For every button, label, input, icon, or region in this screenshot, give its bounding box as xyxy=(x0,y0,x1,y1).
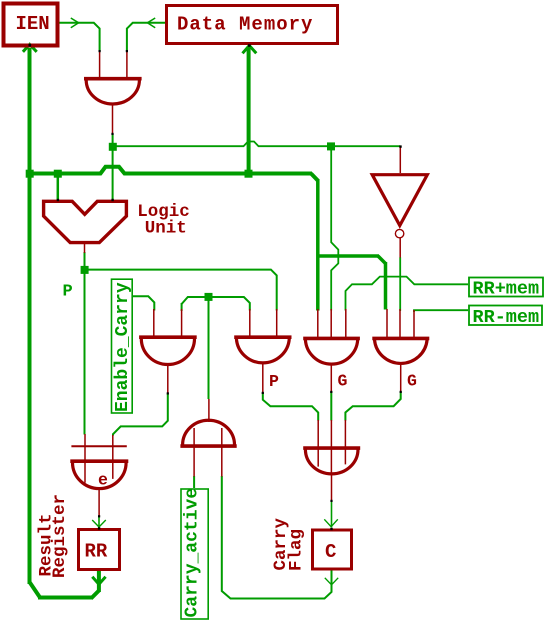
inverter U1 bubble xyxy=(395,229,403,237)
joint dots (black) xyxy=(29,44,402,530)
Logic Unit ALU shape xyxy=(44,201,127,242)
wire: carry XOR G5 output to C box with arrowhead xyxy=(331,501,333,528)
carry XOR gate G5 body xyxy=(303,446,360,450)
svg-text:RR-mem: RR-mem xyxy=(473,307,540,328)
gate G3 pin stubs xyxy=(318,309,346,392)
Enable_Carry label box (vertical) xyxy=(112,279,133,413)
junction square (331,146.2) xyxy=(327,142,335,150)
joint dot C in xyxy=(330,528,332,530)
gate G1 pin stubs xyxy=(154,309,182,394)
joint dot G0 in R xyxy=(126,50,128,52)
Data Memory box xyxy=(167,6,338,44)
wire: bus corner down at x=318 xyxy=(311,174,318,181)
wire: Data Memory vertical bus x=248.5 xyxy=(247,47,251,174)
joint dot inverter input xyxy=(399,145,401,147)
carry AND gate G6 body xyxy=(180,444,236,448)
gate G1 body xyxy=(139,335,197,339)
IEN box xyxy=(4,4,58,46)
svg-text:P: P xyxy=(269,372,279,391)
wire: thin net y=146 from junction to inverter with hop over x=248.5 xyxy=(116,142,400,147)
wire: bus branch corner diagonal xyxy=(378,256,386,264)
wire: Logic Unit output vertical x=84.4 down to XOR gate xyxy=(84,252,86,435)
svg-text:G: G xyxy=(338,371,348,390)
wire: P bus y=269.5 to gate G2 right input xyxy=(85,270,277,311)
svg-text:IEN: IEN xyxy=(16,13,50,35)
svg-text:Register: Register xyxy=(50,494,70,578)
wire: XOR output to RR box with arrowhead xyxy=(98,516,100,528)
svg-text:G: G xyxy=(407,371,417,390)
joint dot G2 out xyxy=(262,392,264,394)
junction square (208.5,296.8) xyxy=(205,293,213,301)
wire: bus branch horizontal y=256 xyxy=(318,254,379,258)
gate G2 pin stubs xyxy=(250,309,277,393)
wire: bus branch vertical x=385.5 down to gate G4 xyxy=(384,262,388,310)
joint dot G0 in L xyxy=(99,50,101,52)
svg-text:Enable_Carry: Enable_Carry xyxy=(113,282,133,412)
svg-text:RR: RR xyxy=(85,541,108,563)
svg-text:RR+mem: RR+mem xyxy=(473,278,540,299)
wire: gate G4 output to carry XOR G5 right input xyxy=(345,392,400,421)
wire: main horizontal bus y=173.5 with hop over x=112 xyxy=(30,167,313,174)
joint dot G5 out xyxy=(330,500,332,502)
Carry_active label box (vertical) xyxy=(181,489,208,619)
wire: C output arrowhead xyxy=(325,578,338,585)
wire: top AND output down through junction to Logic Unit right input xyxy=(112,134,114,201)
wire: gate G2 output to carry XOR G5 left input xyxy=(263,393,318,421)
junction square (112.6,146.5) xyxy=(109,143,117,151)
joint dot G7 out xyxy=(98,515,100,517)
wire: IEN feedback bus left vertical x=30 xyxy=(28,48,32,584)
wire: bus vertical x=318 down to gate G3 xyxy=(316,179,320,311)
junction square (84.5,269.8) xyxy=(81,266,89,274)
result XOR gate G7 pins xyxy=(85,434,113,517)
joint dot LU right input xyxy=(111,199,113,201)
wire: RR output vertical xyxy=(97,571,101,593)
wire: gate G3 output to carry XOR G5 middle input xyxy=(330,392,332,421)
wire: thin vertical x=331 from square down to gate G3 middle, jog over y=256 bus xyxy=(331,150,338,311)
inverter U1 pin stubs xyxy=(399,147,401,258)
svg-text:Data Memory: Data Memory xyxy=(177,14,313,36)
joint dot G4 out xyxy=(400,391,402,393)
svg-text:Carry_active: Carry_active xyxy=(183,488,203,618)
inverter U1 triangle xyxy=(372,175,427,226)
joint dot G0 out xyxy=(111,133,113,135)
gate G4 pin stubs xyxy=(387,309,414,392)
Logic Unit output stub xyxy=(84,243,86,253)
joint dot LU left input xyxy=(57,199,59,201)
RR box (Result Register) xyxy=(79,530,120,570)
svg-text:P: P xyxy=(63,283,73,302)
junction square (248.5,173.5) xyxy=(245,170,253,178)
result XOR gate G7 extra bar xyxy=(71,445,126,447)
wire: corner up to RR output xyxy=(91,591,99,599)
carry XOR gate G5 pass-through pins xyxy=(318,420,345,501)
wire: inverter output down to gate G4 middle input xyxy=(399,257,401,311)
junction square (57.8,173.5) xyxy=(54,170,62,178)
joint dot RR in xyxy=(98,527,100,529)
RR-mem label box xyxy=(469,306,542,326)
wire: from square down to carry AND gate top pin xyxy=(208,300,210,399)
joint dot G1 out xyxy=(167,392,169,394)
joint dot G3 out xyxy=(330,391,332,393)
svg-text:C: C xyxy=(325,541,336,563)
wire: C flag output feedback loop to carry AND gate xyxy=(222,476,332,599)
wire: IEN output to top AND gate xyxy=(59,23,100,52)
RR+mem label box xyxy=(469,278,543,297)
wire: carry AND left pin to Carry_active box xyxy=(193,476,195,488)
wire: LU left input from bus square xyxy=(57,176,60,201)
joint dot IEN arrow xyxy=(29,44,32,47)
wire: bottom-left rounded corner xyxy=(30,582,41,598)
svg-text:Unit: Unit xyxy=(145,219,187,239)
wire: IEN input arrowhead (thick) xyxy=(23,44,37,51)
wire: Enable_Carry output to gate G1 left input xyxy=(133,296,155,310)
joint dot DM arrow xyxy=(248,44,251,47)
C box (Carry Flag) xyxy=(313,530,352,569)
wire: RR+mem net to gate G3 right input xyxy=(346,277,469,311)
svg-text:e: e xyxy=(98,471,108,490)
wire: RR output arrowhead (thick) xyxy=(92,577,105,584)
gate G4 body xyxy=(372,337,429,341)
junction square (30,173.5) xyxy=(26,170,34,178)
result XOR gate G7 body xyxy=(70,459,128,463)
gate G3 body xyxy=(303,337,360,341)
top AND gate G0 body xyxy=(84,77,142,81)
wire: Data Memory input arrowhead (thick) xyxy=(243,46,257,54)
wire: RR-mem net to gate G4 right input xyxy=(414,310,468,312)
wire: P bus A y=296.8 gate G1 right input to gate G2 left input xyxy=(182,297,250,311)
wire: bottom horizontal bus y=598 RR to left corner xyxy=(38,596,92,600)
wire: gate G1 output to XOR right input xyxy=(113,393,168,435)
gate G2 body xyxy=(234,335,291,339)
wire: Data Memory arrowhead xyxy=(147,18,155,28)
wire: IEN output arrowhead xyxy=(71,18,79,28)
top AND gate G0 pin stubs xyxy=(100,51,127,134)
svg-text:Flag: Flag xyxy=(287,529,307,571)
wire: Data Memory left wire to top AND gate xyxy=(127,23,166,52)
carry AND gate G6 (pointing up) pins xyxy=(194,399,222,477)
